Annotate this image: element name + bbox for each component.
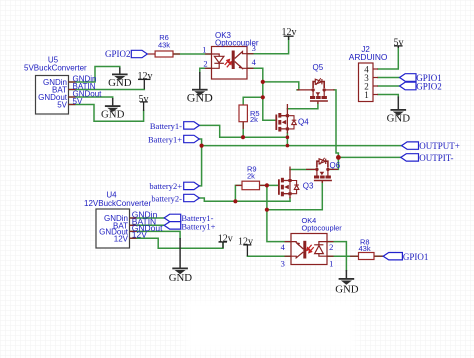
ground GND2 (below GNDout of U5) xyxy=(105,98,121,112)
svg-text:ARDUINO: ARDUINO xyxy=(349,52,388,62)
resistor R6 xyxy=(147,33,173,57)
verticals to channel xyxy=(312,90,314,96)
svg-text:12v: 12v xyxy=(218,234,233,245)
wire U5 BAT to 12v flag xyxy=(69,89,145,91)
drain lead right xyxy=(324,89,334,91)
svg-text:Q5: Q5 xyxy=(313,63,324,72)
wire battery2- net row xyxy=(199,198,290,201)
wire Q5 gate to Q4 drain xyxy=(287,103,318,109)
svg-text:43k: 43k xyxy=(359,244,371,253)
light arrows xyxy=(225,59,232,67)
net flag Battery1+ (top) xyxy=(184,135,200,142)
wire U5 GNDout to GND2 xyxy=(69,97,113,99)
wire node D7 down to OK4 pin4 xyxy=(267,210,291,242)
node D7 xyxy=(265,208,269,212)
LED inside OK4 xyxy=(314,242,327,257)
power flag 12v (bottom #2, OK4) xyxy=(243,245,251,256)
wire U4 BAT to Battery1+ flag xyxy=(130,224,165,226)
svg-text:5V: 5V xyxy=(57,100,67,109)
junction dots xyxy=(200,80,341,212)
wire R5 bottom lead xyxy=(242,122,244,138)
LED inside OK3 xyxy=(212,54,224,68)
OK4 pin1 stub xyxy=(327,255,334,257)
R8 left lead xyxy=(350,255,359,257)
R9 right lead xyxy=(260,184,267,186)
svg-text:2k: 2k xyxy=(250,115,258,124)
net flag OUTPIT- xyxy=(401,154,419,161)
svg-text:battery2+: battery2+ xyxy=(149,181,182,191)
channel segments xyxy=(278,113,289,132)
svg-text:5V: 5V xyxy=(73,97,83,106)
svg-text:OUTPUT+: OUTPUT+ xyxy=(419,141,460,151)
wire OK3 pin3 to 12v xyxy=(247,37,289,54)
wire J2 pin2 to GPIO2 flag xyxy=(378,85,400,87)
node D8 OUTPIT- junction xyxy=(336,155,341,160)
wire 12v flag2 to OK4 pin3 xyxy=(247,255,291,257)
node D3 R5 bottom junction xyxy=(241,135,245,139)
power flag 12v (left of U5, BAT) xyxy=(138,79,151,89)
R9 left lead xyxy=(236,184,244,186)
wire GPIO2 to R6 to OK3 pin1 xyxy=(173,53,212,55)
net flag Battery1- (top) xyxy=(184,122,200,129)
ground GND4 (below U4) xyxy=(172,238,188,274)
OK3 pin2 stub xyxy=(205,67,212,69)
node D6 R9 right junction xyxy=(265,183,269,187)
svg-text:Battery1+: Battery1+ xyxy=(148,134,182,144)
source lead left xyxy=(297,89,313,91)
svg-text:Q3: Q3 xyxy=(303,182,314,191)
transistor Q5 xyxy=(297,63,335,104)
svg-text:GPIO2: GPIO2 xyxy=(416,81,442,91)
channel pads xyxy=(310,88,327,99)
power flag 5v (left, U5) xyxy=(140,102,148,111)
svg-text:12V: 12V xyxy=(132,230,147,240)
BLACK SERIF TEXTS xyxy=(101,27,410,296)
R8 right lead xyxy=(374,255,383,257)
svg-text:1: 1 xyxy=(364,90,369,100)
svg-text:GND: GND xyxy=(187,91,213,105)
svg-text:3: 3 xyxy=(252,43,256,53)
wire node D7 to Q6 gate xyxy=(267,182,322,210)
wire U4 GNDout to GND4 xyxy=(130,231,181,238)
R6 right lead xyxy=(173,53,180,55)
faint white patch bottom (artifact in source) xyxy=(185,300,355,350)
net flag battery2+ xyxy=(184,182,200,189)
wire OK4 pin1 to R8 xyxy=(327,255,359,257)
net flag GPIO1 (J2) xyxy=(400,74,416,82)
node D1 xyxy=(261,80,265,84)
svg-text:4: 4 xyxy=(252,57,257,67)
wire R8 to GPIO1 flag xyxy=(374,255,383,257)
OK4 pin3 stub xyxy=(285,255,292,257)
wire node D1 to Q5 source xyxy=(263,82,299,90)
wire OUTPUT+ row xyxy=(202,145,402,147)
wire OK3 pin4 to node D1 xyxy=(247,68,263,82)
NET FLAGS (blue) xyxy=(131,50,418,260)
wire Q5 drain to OUTPIT- node D8 xyxy=(334,90,338,157)
svg-text:5v: 5v xyxy=(394,37,404,48)
wire R9 right lead to node D6 to Q3 gate xyxy=(260,184,279,186)
net flag GPIO2 (top left) xyxy=(131,50,147,57)
net flag OUTPUT+ xyxy=(402,142,419,149)
svg-text:Battery1+: Battery1+ xyxy=(181,221,215,231)
wire U4 GNDin to Battery1- flag xyxy=(130,217,165,219)
svg-text:GPIO1: GPIO1 xyxy=(403,252,429,262)
svg-text:Battery1-: Battery1- xyxy=(150,121,182,131)
transistor Q6 xyxy=(306,158,341,183)
svg-text:5VBuckConverter: 5VBuckConverter xyxy=(24,64,87,73)
R5 bottom lead xyxy=(242,122,244,129)
phototransistor inside OK3 xyxy=(233,51,247,70)
gate bar xyxy=(275,115,277,131)
node D5 battery2- junction xyxy=(233,199,237,203)
wire Q4 source down to OUTPUT+ row xyxy=(286,133,288,146)
svg-text:GPIO2: GPIO2 xyxy=(105,49,131,59)
net flag GPIO2 (J2) xyxy=(400,82,416,90)
svg-text:3: 3 xyxy=(281,258,285,268)
resistor R8 xyxy=(359,238,375,260)
OK3 pin3 stub xyxy=(247,53,254,55)
wire OUTPIT- row xyxy=(338,156,400,158)
wire J2 pin4 to 5v xyxy=(378,46,398,69)
node D9 Q4 source junction xyxy=(286,135,290,139)
svg-text:GND: GND xyxy=(101,108,125,120)
body diode xyxy=(287,116,296,129)
net flag battery2- xyxy=(184,194,200,201)
resistor R5 xyxy=(239,105,260,124)
net flag Battery1+ (U4) xyxy=(164,222,181,229)
node D2 xyxy=(261,95,265,99)
power flag 12v (bottom left #1) xyxy=(219,242,228,248)
wire OK3 pin2 to GND xyxy=(200,68,212,72)
svg-text:Optocoupler: Optocoupler xyxy=(302,224,343,233)
net flag GPIO1 (bottom) xyxy=(383,253,402,260)
U4 12V buck converter xyxy=(84,191,163,249)
wire node D2 to R5 top xyxy=(243,97,263,105)
ground GND5 (below J2 pin1) xyxy=(391,97,407,116)
wire R9 left lead down to battery2- row xyxy=(235,185,242,201)
svg-text:5v: 5v xyxy=(139,94,149,105)
optocoupler OK3 xyxy=(202,31,259,79)
wire J2 pin3 to GPIO1 flag xyxy=(378,77,400,79)
wire Q3 drain to Q6 source xyxy=(290,169,314,171)
wire U5 5V to 5v flag xyxy=(69,105,144,122)
net flag Battery1- (U4) xyxy=(164,214,181,221)
svg-text:12v: 12v xyxy=(138,71,153,82)
wire Battery1+ to node D4 xyxy=(199,139,201,146)
svg-text:4: 4 xyxy=(281,242,286,252)
power flag 5v (top right, J2) xyxy=(394,46,403,48)
power flag 12v (top, OK3) xyxy=(284,36,294,40)
connector J2 ARDUINO xyxy=(349,45,388,102)
wire node D6 down to node D7 xyxy=(266,185,268,209)
wire Q3 source lead xyxy=(289,198,291,201)
OK3 pin4 stub xyxy=(247,67,254,69)
wire U5 GNDin to GND1 xyxy=(69,67,120,83)
svg-text:OUTPIT-: OUTPIT- xyxy=(419,153,453,163)
wire OK4 pin2 right and down xyxy=(327,242,346,271)
svg-text:GND: GND xyxy=(169,272,193,284)
middle lead xyxy=(286,116,288,129)
wire node D4 down to battery2+ xyxy=(199,146,201,186)
wire U4 12V to 12v flag1 xyxy=(130,238,224,248)
svg-text:43k: 43k xyxy=(158,41,170,50)
light arrows xyxy=(307,245,314,253)
svg-text:12v: 12v xyxy=(282,27,297,38)
svg-text:Q6: Q6 xyxy=(330,161,341,170)
wire node D1 to node D2 xyxy=(262,82,264,97)
svg-text:2k: 2k xyxy=(247,172,255,181)
wire node D8 to Q6 drain xyxy=(329,157,338,169)
svg-text:12v: 12v xyxy=(238,237,253,248)
svg-text:12V: 12V xyxy=(114,235,129,244)
source pin down xyxy=(281,129,287,134)
svg-text:12VBuckConverter: 12VBuckConverter xyxy=(84,199,151,208)
OK4 pin2 stub xyxy=(327,241,334,243)
node D4 Battery1+ junction xyxy=(200,144,204,148)
svg-text:Q4: Q4 xyxy=(298,118,309,127)
svg-text:2: 2 xyxy=(329,242,333,252)
phototransistor inside OK4 xyxy=(291,241,305,259)
ground GND1 (right of U5) xyxy=(112,68,128,81)
optocoupler OK4 xyxy=(281,216,343,268)
drain pin up xyxy=(281,104,287,116)
transistor Q4 xyxy=(276,104,309,134)
gate plate and lead xyxy=(310,100,328,102)
ground GND6 (below OK4/R8) xyxy=(339,270,355,285)
svg-text:GND: GND xyxy=(335,284,359,296)
svg-text:2: 2 xyxy=(203,58,207,68)
transistor Q3 xyxy=(279,167,314,199)
svg-text:1: 1 xyxy=(329,258,333,268)
svg-text:GND: GND xyxy=(387,112,411,124)
red pin stubs for optocoupler pins xyxy=(173,54,383,257)
POWER FLAGS (black) xyxy=(138,36,403,256)
GROUND SYMBOLS xyxy=(105,68,406,285)
SERIF TEXTS xyxy=(105,49,460,262)
OK3 pin1 stub xyxy=(205,53,212,55)
ground GND3 (below OK3 pin2) xyxy=(192,72,208,96)
resistor R9 xyxy=(242,165,260,190)
svg-text:battery2-: battery2- xyxy=(151,193,182,203)
wire J2 pin1 to GND5 xyxy=(378,95,398,98)
OK4 pin4 stub xyxy=(285,241,292,243)
wire node D2 to Q4 gate xyxy=(263,97,276,120)
svg-text:GND: GND xyxy=(108,77,132,89)
body diode bridge xyxy=(313,82,315,88)
node D10 OUTPUT+ junction xyxy=(286,144,290,148)
svg-text:1: 1 xyxy=(202,45,206,55)
wire Battery1- net xyxy=(199,125,287,137)
U5 5V buck converter xyxy=(24,56,102,115)
